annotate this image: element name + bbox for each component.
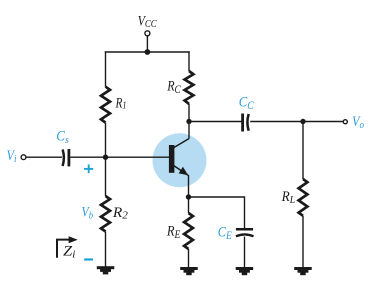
ground R2 bbox=[97, 266, 115, 274]
wire CE bottom lead bbox=[244, 237, 246, 267]
label plus sign bbox=[84, 164, 93, 173]
node VCC terminal bbox=[145, 31, 150, 36]
capacitor CC curved plate bbox=[247, 114, 248, 131]
capacitor Cs curved plate bbox=[63, 150, 64, 167]
capacitor CE curved plate bbox=[236, 234, 254, 236]
transistor Q1 emitter arrow bbox=[179, 167, 189, 176]
wire collector node to CC bbox=[189, 121, 242, 123]
junction VCC rail dot bbox=[145, 49, 151, 55]
ground RL bbox=[294, 267, 312, 275]
capacitor CE flat plate bbox=[236, 228, 253, 231]
wire Cs to base bbox=[70, 156, 169, 158]
capacitor Cs flat plate bbox=[68, 149, 71, 166]
wire R1 top lead bbox=[105, 51, 107, 86]
node Vi terminal bbox=[21, 155, 26, 160]
label Zi with arrow bbox=[57, 236, 78, 260]
junction base node dot bbox=[103, 155, 108, 160]
junction collector node dot bbox=[186, 119, 191, 124]
resistor RC bbox=[185, 71, 194, 104]
node Vo terminal bbox=[343, 120, 347, 124]
resistor R2 bbox=[101, 196, 110, 232]
wire R2 bottom lead bbox=[105, 232, 107, 267]
label minus sign bbox=[84, 258, 93, 260]
wire VCC rail bbox=[105, 51, 190, 53]
wire RC bottom to collector node bbox=[188, 104, 190, 139]
resistor RE bbox=[184, 213, 193, 249]
wire Vi to Cs bbox=[26, 156, 62, 158]
ground CE bbox=[236, 267, 254, 275]
wire CC to Vo bbox=[250, 121, 343, 123]
wire emitter node to CE bbox=[189, 197, 245, 228]
wire VCC stem bbox=[146, 36, 148, 52]
ground RE bbox=[180, 267, 198, 275]
resistor R1 bbox=[101, 87, 110, 123]
junction emitter node dot bbox=[186, 194, 191, 199]
transistor Q1 base bar bbox=[169, 145, 175, 173]
wire RE bottom lead bbox=[188, 249, 190, 267]
wire R1 bottom lead bbox=[105, 123, 107, 196]
transistor Q1 highlight circle bbox=[153, 133, 207, 187]
wire RC top lead bbox=[188, 51, 190, 71]
wire RL bottom lead bbox=[302, 216, 304, 267]
wire emitter vertical bbox=[188, 175, 190, 213]
resistor RL bbox=[299, 179, 308, 216]
wire RL top lead bbox=[302, 122, 304, 180]
junction RL node dot bbox=[300, 119, 305, 124]
capacitor CC flat plate bbox=[241, 114, 244, 132]
transistor Q1 emitter diagonal bbox=[174, 166, 189, 176]
transistor Q1 collector diagonal bbox=[174, 139, 189, 148]
